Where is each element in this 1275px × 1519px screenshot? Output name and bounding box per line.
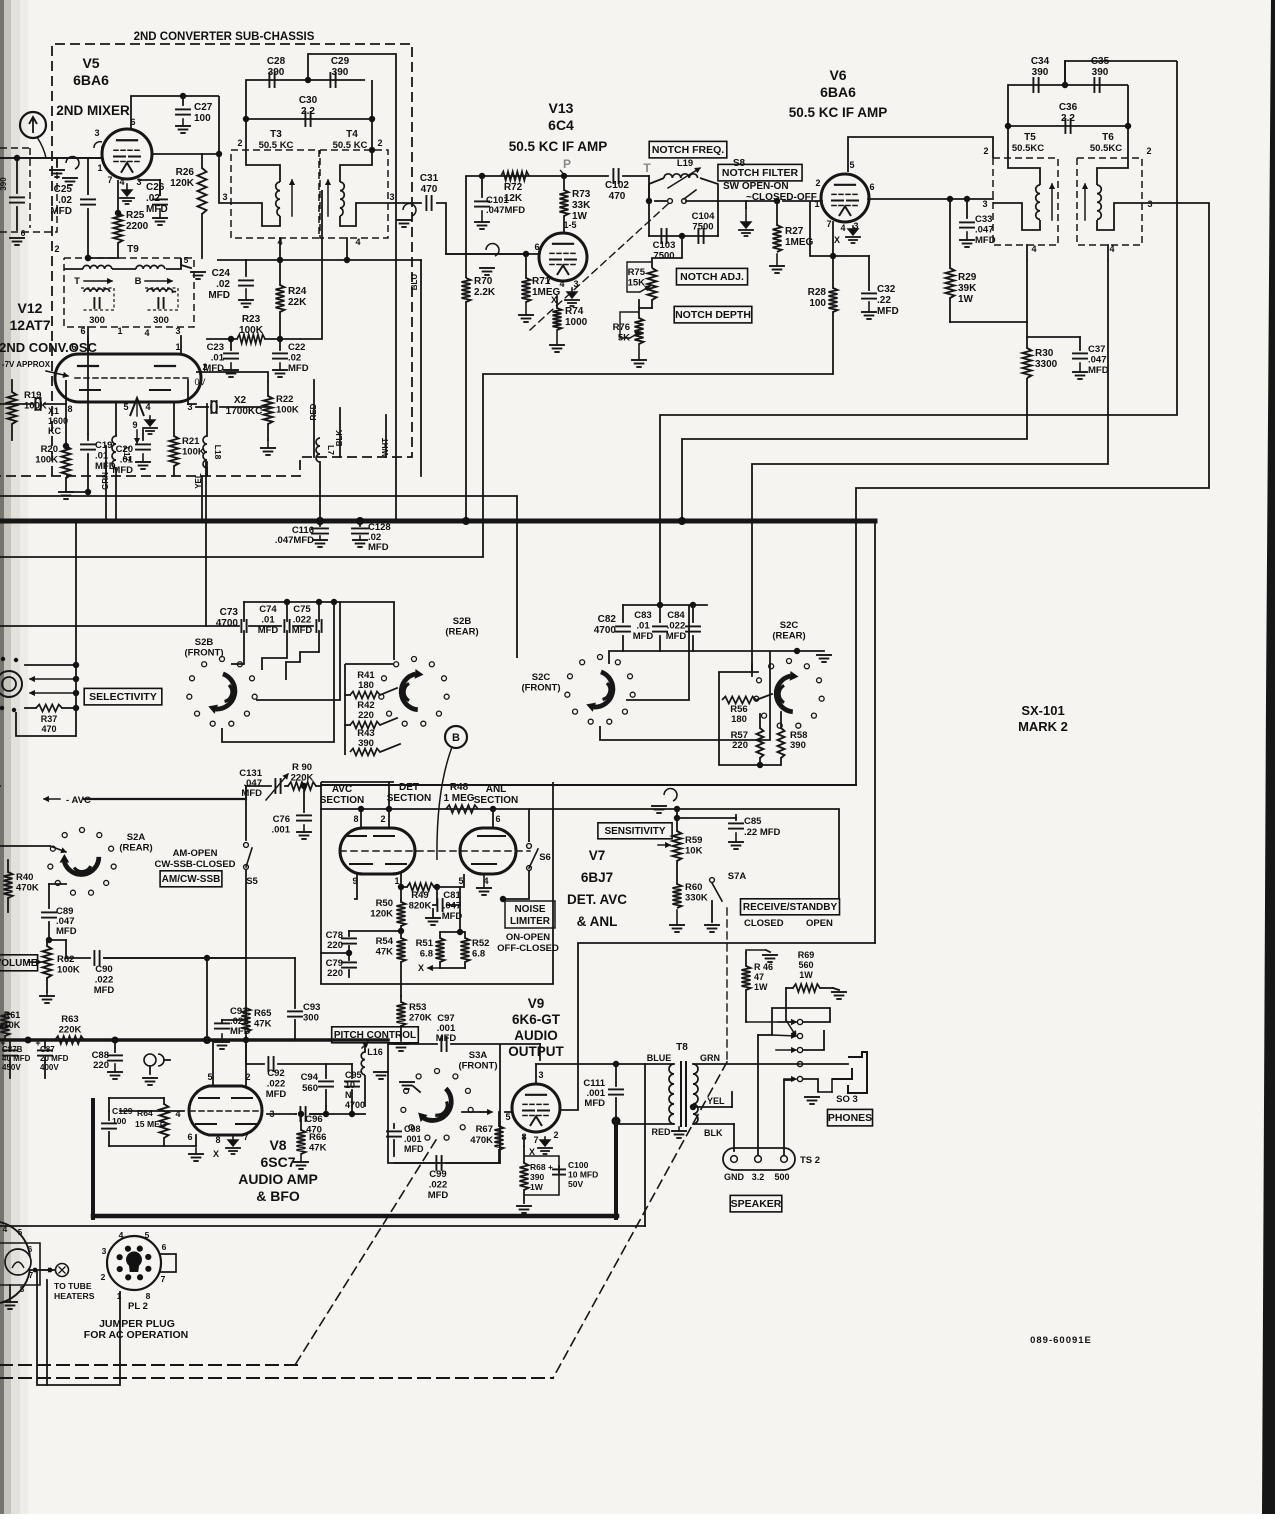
resistor R28 bbox=[829, 288, 838, 312]
capacitor C104 bbox=[697, 229, 699, 243]
svg-text:470K: 470K bbox=[16, 883, 39, 894]
riser x206 bbox=[205, 462, 207, 626]
svg-text:1600: 1600 bbox=[48, 416, 68, 426]
junction sens bbox=[674, 806, 680, 812]
capacitor C89 bbox=[48, 884, 50, 908]
svg-text:6SC7: 6SC7 bbox=[260, 1154, 295, 1170]
S6 switch bbox=[527, 844, 532, 849]
svg-text:8: 8 bbox=[20, 1285, 25, 1294]
svg-text:39K: 39K bbox=[958, 283, 977, 294]
capacitor C29 bbox=[329, 73, 331, 87]
ground V5 center bbox=[126, 184, 128, 190]
resistor R21 bbox=[170, 436, 179, 466]
capacitor C111 bbox=[615, 1064, 617, 1086]
svg-text:R70: R70 bbox=[474, 276, 493, 287]
thin bottom rail bbox=[0, 1225, 645, 1227]
svg-text:10 MFD: 10 MFD bbox=[568, 1170, 598, 1180]
heater junction dots bbox=[33, 1268, 38, 1273]
svg-text:5: 5 bbox=[145, 1230, 150, 1240]
svg-text:47K: 47K bbox=[376, 947, 394, 958]
svg-text:220: 220 bbox=[327, 968, 343, 979]
capacitor C25 bbox=[81, 198, 95, 200]
resistor R67 bbox=[495, 1126, 504, 1150]
tube V12 envelope bbox=[55, 354, 201, 402]
svg-text:6.8: 6.8 bbox=[420, 949, 433, 960]
signal wire C31 down-right bbox=[436, 203, 524, 254]
cathode return wire bbox=[483, 374, 833, 557]
V7 anl cathode net bbox=[440, 887, 460, 932]
svg-text:AM/CW-SSB: AM/CW-SSB bbox=[162, 874, 221, 885]
svg-text:3: 3 bbox=[538, 1070, 543, 1080]
capacitor C85 bbox=[735, 815, 737, 820]
PL2 tab bbox=[159, 1254, 176, 1272]
resistor R24 bbox=[279, 260, 281, 285]
resistor R19 bbox=[8, 392, 17, 424]
jack wire net bbox=[772, 1008, 830, 1035]
svg-text:R21: R21 bbox=[182, 436, 200, 447]
svg-text:(REAR): (REAR) bbox=[772, 631, 805, 642]
T4 pin4 drop bbox=[346, 238, 348, 260]
svg-text:C26: C26 bbox=[146, 182, 165, 193]
svg-text:8: 8 bbox=[146, 1291, 151, 1301]
left entry wire bbox=[0, 157, 102, 159]
svg-text:1W: 1W bbox=[754, 982, 768, 992]
svg-text:R 90: R 90 bbox=[292, 762, 312, 773]
AVC bus heavy line bbox=[0, 519, 875, 524]
svg-text:5: 5 bbox=[123, 402, 128, 412]
jack arrows bbox=[772, 1035, 796, 1036]
svg-text:C92: C92 bbox=[267, 1068, 284, 1079]
svg-text:2: 2 bbox=[54, 244, 59, 254]
svg-text:R60: R60 bbox=[685, 882, 702, 893]
svg-text:4: 4 bbox=[355, 237, 360, 247]
noise limiter boxed bbox=[505, 901, 555, 928]
feedthru symbol bbox=[144, 1054, 156, 1066]
svg-text:7500: 7500 bbox=[692, 222, 713, 233]
svg-text:V12: V12 bbox=[18, 300, 43, 316]
svg-text:C99: C99 bbox=[429, 1169, 446, 1180]
resistor R60 bbox=[673, 884, 682, 908]
svg-text:GND: GND bbox=[724, 1172, 745, 1182]
svg-text:6C4: 6C4 bbox=[548, 117, 574, 133]
svg-text:1W: 1W bbox=[799, 970, 813, 980]
svg-text:PITCH CONTROL: PITCH CONTROL bbox=[334, 1030, 416, 1041]
svg-text:V8: V8 bbox=[269, 1137, 286, 1153]
capacitor C82 bbox=[622, 605, 624, 622]
pilot lamp bbox=[5, 1249, 31, 1275]
wire stair4 bbox=[856, 203, 1209, 785]
S2B front rotary bbox=[220, 657, 225, 662]
svg-text:390: 390 bbox=[530, 1172, 544, 1182]
T4 secondary path bbox=[340, 203, 412, 226]
svg-text:2.2K: 2.2K bbox=[474, 287, 496, 298]
V9 ground bbox=[544, 1137, 546, 1140]
V6 ground bbox=[852, 226, 854, 229]
svg-text:MFD: MFD bbox=[94, 985, 115, 996]
circled A test point bbox=[20, 112, 46, 138]
notch filter boxed label bbox=[718, 164, 802, 181]
svg-text:220K: 220K bbox=[59, 1025, 82, 1036]
svg-text:MFD: MFD bbox=[258, 625, 279, 636]
V12 grid dashes bbox=[75, 377, 190, 379]
wire V7 bottom rail bbox=[321, 983, 553, 985]
sens top gnd loop bbox=[664, 789, 677, 801]
svg-text:R53: R53 bbox=[409, 1002, 426, 1013]
svg-text:R59: R59 bbox=[685, 835, 702, 846]
svg-text:3.2: 3.2 bbox=[752, 1172, 765, 1182]
V7 pin5 wire bbox=[460, 874, 464, 887]
resistor R20 bbox=[62, 446, 71, 478]
svg-text:10K: 10K bbox=[685, 846, 703, 857]
AVC label arrow bbox=[44, 798, 60, 800]
svg-text:R69: R69 bbox=[798, 950, 815, 960]
svg-text:7: 7 bbox=[826, 219, 831, 229]
T6 secondary bbox=[1097, 203, 1142, 230]
svg-text:R26: R26 bbox=[176, 167, 195, 178]
svg-text:10K: 10K bbox=[4, 1020, 21, 1030]
svg-text:.047MFD: .047MFD bbox=[486, 205, 525, 216]
pilot lamp box bbox=[0, 1243, 40, 1285]
svg-text:R71: R71 bbox=[532, 276, 551, 287]
svg-text:C76: C76 bbox=[273, 814, 290, 825]
svg-text:AUDIO AMP: AUDIO AMP bbox=[238, 1171, 318, 1187]
svg-text:390: 390 bbox=[1092, 67, 1109, 78]
S1 stub wire 1 bbox=[25, 664, 76, 666]
svg-text:2: 2 bbox=[101, 1272, 106, 1282]
svg-text:C20: C20 bbox=[116, 444, 133, 455]
svg-text:50V: 50V bbox=[568, 1179, 583, 1189]
junction V6 out bbox=[964, 196, 970, 202]
svg-text:.047: .047 bbox=[443, 901, 462, 912]
S2C rear rotary bbox=[787, 659, 792, 664]
junction C25/R25 bbox=[85, 255, 91, 261]
capacitor C128 bbox=[359, 521, 361, 526]
svg-text:820K: 820K bbox=[409, 901, 432, 912]
svg-text:.02: .02 bbox=[146, 193, 160, 204]
heater loop wire bbox=[37, 1271, 120, 1385]
S2A rotary bbox=[80, 828, 85, 833]
V7 pin9 wire bbox=[354, 874, 357, 899]
svg-text:MFD: MFD bbox=[584, 1098, 605, 1109]
pot R59 bbox=[673, 831, 682, 861]
svg-text:180: 180 bbox=[358, 680, 374, 691]
svg-text:390: 390 bbox=[358, 738, 374, 749]
trimmer C131 bbox=[274, 779, 276, 793]
svg-text:MFD: MFD bbox=[877, 306, 899, 317]
wire C34 junction riser bbox=[1064, 61, 1066, 85]
V12 grid wire left bbox=[65, 380, 67, 446]
capacitor C33 bbox=[966, 199, 968, 218]
svg-text:1000: 1000 bbox=[565, 317, 588, 328]
svg-text:R20: R20 bbox=[41, 444, 58, 455]
svg-text:10: 10 bbox=[345, 1080, 355, 1090]
S2B lower wire bbox=[222, 602, 334, 742]
wire R90 right bbox=[316, 785, 321, 787]
svg-text:5: 5 bbox=[18, 1228, 23, 1237]
resistor R51 bbox=[436, 938, 445, 962]
390 trimmer cap bbox=[10, 196, 24, 198]
svg-text:6BA6: 6BA6 bbox=[820, 84, 856, 100]
svg-text:.001: .001 bbox=[272, 825, 291, 836]
svg-text:YEL: YEL bbox=[707, 1096, 725, 1106]
svg-text:40 MFD: 40 MFD bbox=[2, 1054, 31, 1063]
T9 top coil 1 bbox=[83, 265, 112, 269]
PL2 pins bbox=[137, 1246, 143, 1252]
svg-text:4: 4 bbox=[119, 177, 124, 187]
S1 ladder vertical bbox=[75, 522, 77, 736]
S3A rotary bbox=[435, 1069, 440, 1074]
svg-text:.02: .02 bbox=[216, 279, 230, 290]
svg-text:OPEN: OPEN bbox=[806, 918, 833, 929]
circled X heaters bbox=[56, 1264, 69, 1277]
resistor R42 bbox=[350, 722, 380, 729]
svg-text:.22 MFD: .22 MFD bbox=[744, 827, 781, 838]
wire V8 pin2 up bbox=[245, 1040, 247, 1086]
vertical GRN to bus bbox=[115, 476, 117, 521]
svg-text:C90: C90 bbox=[95, 964, 112, 975]
sensitivity boxed bbox=[598, 823, 672, 839]
svg-text:C23: C23 bbox=[207, 342, 224, 353]
wire V12 pin1 up bbox=[180, 336, 182, 354]
svg-text:8: 8 bbox=[353, 814, 358, 824]
wire blue rail bbox=[536, 1063, 674, 1065]
capacitor C20 bbox=[142, 430, 144, 440]
svg-text:SO 3: SO 3 bbox=[836, 1094, 858, 1105]
svg-text:220: 220 bbox=[732, 740, 748, 751]
capacitor C78 bbox=[348, 931, 350, 936]
svg-text:(REAR): (REAR) bbox=[445, 627, 478, 638]
svg-text:15K: 15K bbox=[628, 278, 646, 289]
svg-text:X1: X1 bbox=[48, 406, 59, 416]
speaker boxed bbox=[730, 1195, 782, 1212]
S2A stub bbox=[0, 845, 50, 847]
svg-text:20 MFD: 20 MFD bbox=[40, 1054, 69, 1063]
transformer T8 primary bbox=[669, 1064, 674, 1124]
wire S6 down bbox=[503, 871, 529, 899]
svg-text:RECEIVE/STANDBY: RECEIVE/STANDBY bbox=[743, 902, 838, 913]
resistor R65 bbox=[242, 1008, 251, 1032]
coil L16 bbox=[361, 1052, 365, 1075]
svg-text:300: 300 bbox=[303, 1013, 319, 1024]
volume boxed bbox=[0, 955, 38, 971]
capacitor C24 bbox=[245, 260, 247, 276]
svg-text:7: 7 bbox=[107, 175, 112, 185]
svg-text:470: 470 bbox=[421, 184, 438, 195]
capacitor C99 bbox=[394, 1162, 439, 1164]
svg-text:R28: R28 bbox=[808, 287, 827, 298]
svg-text:6: 6 bbox=[162, 1242, 167, 1252]
svg-text:4: 4 bbox=[145, 402, 150, 412]
resistor R41 bbox=[350, 692, 380, 699]
svg-text:SELECTIVITY: SELECTIVITY bbox=[89, 691, 157, 703]
svg-text:6: 6 bbox=[187, 1132, 192, 1142]
T3 coil bbox=[276, 182, 280, 216]
svg-text:089-60091E: 089-60091E bbox=[1030, 1335, 1092, 1346]
wire det riser bbox=[388, 782, 390, 809]
svg-text:V6: V6 bbox=[829, 67, 846, 83]
bus junction C128 bbox=[356, 517, 364, 525]
wire C102 right bbox=[623, 175, 649, 177]
svg-text:C22: C22 bbox=[288, 342, 305, 353]
wire R42 bbox=[345, 724, 350, 726]
svg-text:.047MFD: .047MFD bbox=[275, 535, 314, 546]
svg-text:DET. AVC: DET. AVC bbox=[567, 892, 627, 907]
svg-text:R76: R76 bbox=[613, 322, 630, 333]
phones boxed bbox=[827, 1109, 872, 1126]
capacitor C129 bbox=[108, 1111, 110, 1120]
svg-text:NOTCH ADJ.: NOTCH ADJ. bbox=[680, 271, 744, 283]
svg-text:RED: RED bbox=[651, 1127, 671, 1137]
svg-text:5: 5 bbox=[849, 160, 854, 170]
tube V6 bbox=[821, 174, 869, 222]
svg-text:390: 390 bbox=[268, 67, 285, 78]
svg-text:& ANL: & ANL bbox=[577, 914, 618, 929]
notch coil L19 branch bbox=[649, 178, 664, 201]
svg-text:C74: C74 bbox=[259, 604, 277, 615]
svg-text:V9: V9 bbox=[528, 996, 545, 1011]
BLU lead wire bbox=[420, 260, 422, 476]
resistor R25 bbox=[114, 213, 123, 243]
heater arrow bbox=[40, 1269, 52, 1271]
coupling loop T5T6 bbox=[1008, 85, 1128, 158]
T4 coil arrow bbox=[327, 180, 329, 216]
junction notch left bbox=[646, 198, 652, 204]
svg-text:6: 6 bbox=[534, 242, 539, 252]
T6 primary bbox=[1097, 158, 1128, 185]
resistor R43 bbox=[350, 749, 380, 756]
junction pin6 node bbox=[216, 151, 222, 157]
V13 ground bbox=[571, 288, 573, 292]
wire cathode bbox=[117, 180, 119, 213]
svg-text:300: 300 bbox=[89, 315, 105, 326]
wire V12 pin6 up bbox=[87, 336, 89, 354]
transformer T3 box bbox=[231, 150, 319, 238]
svg-text:S7A: S7A bbox=[728, 871, 747, 882]
wire R46 down bbox=[745, 1021, 747, 1022]
svg-text:6K6-GT: 6K6-GT bbox=[512, 1012, 561, 1027]
svg-text:270K: 270K bbox=[409, 1013, 432, 1024]
svg-text:.001: .001 bbox=[404, 1134, 422, 1144]
svg-text:C35: C35 bbox=[1091, 56, 1110, 67]
R22 ground bbox=[267, 440, 269, 448]
capacitor C94 bbox=[325, 1064, 327, 1078]
wire ladder top bbox=[345, 663, 394, 665]
svg-text:1-5: 1-5 bbox=[563, 220, 576, 230]
capacitor C34 bbox=[1032, 78, 1034, 92]
wire R41 bbox=[345, 694, 350, 696]
svg-text:MFD: MFD bbox=[112, 465, 133, 476]
wire grid left drop bbox=[88, 158, 102, 195]
junction C78 mid bbox=[346, 950, 352, 956]
coil L18 bbox=[203, 436, 207, 468]
svg-text:C94: C94 bbox=[301, 1072, 319, 1083]
svg-text:ON-OPEN: ON-OPEN bbox=[506, 932, 550, 943]
AVC wire bbox=[84, 798, 246, 800]
wire pin8 drop bbox=[360, 809, 362, 828]
wire into notch bbox=[648, 176, 650, 201]
junction left entry bbox=[14, 155, 20, 161]
svg-text:MFD: MFD bbox=[292, 625, 313, 636]
R46 gnd bbox=[763, 954, 777, 956]
svg-text:6: 6 bbox=[495, 814, 500, 824]
junction blue bbox=[613, 1061, 619, 1067]
svg-text:C103: C103 bbox=[653, 240, 676, 251]
capacitor C91 bbox=[245, 958, 247, 1020]
B plus riser from top rail bbox=[308, 54, 396, 521]
capacitor C27 bbox=[182, 96, 184, 105]
svg-text:S6: S6 bbox=[539, 852, 551, 863]
R62 ground bbox=[46, 992, 48, 996]
svg-text:SECTION: SECTION bbox=[320, 795, 364, 806]
svg-text:50.5 KC IF AMP: 50.5 KC IF AMP bbox=[789, 105, 888, 120]
terminal strip TS2 bbox=[723, 1148, 795, 1170]
svg-text:1: 1 bbox=[175, 342, 180, 352]
svg-text:100K: 100K bbox=[35, 455, 58, 466]
svg-text:L7: L7 bbox=[326, 445, 336, 455]
junction grid RC bbox=[63, 443, 69, 449]
wire R23 to red riser bbox=[300, 190, 322, 339]
wire T3/T4 bottom rail bbox=[246, 259, 421, 261]
resistor R26 bbox=[201, 154, 203, 168]
wire V5 grid input bbox=[0, 157, 102, 159]
svg-text:C31: C31 bbox=[420, 173, 439, 184]
audio box heavy right bbox=[614, 1121, 618, 1218]
svg-text:C36: C36 bbox=[1059, 102, 1078, 113]
resistor R57 bbox=[757, 728, 764, 758]
svg-text:MFD: MFD bbox=[633, 631, 654, 642]
svg-text:220: 220 bbox=[327, 940, 343, 951]
svg-text:R19: R19 bbox=[24, 390, 41, 401]
svg-text:5: 5 bbox=[458, 876, 463, 886]
junction anl bbox=[457, 929, 463, 935]
T9 can2 box bbox=[145, 288, 178, 310]
resistor R73 bbox=[563, 176, 565, 190]
V8 grid dashes bbox=[190, 1110, 262, 1112]
T3 primary path bbox=[246, 150, 280, 182]
svg-text:MFD: MFD bbox=[203, 363, 224, 374]
svg-text:C29: C29 bbox=[331, 56, 350, 67]
R46 top jog bbox=[746, 950, 766, 955]
V6 cathode loop bbox=[810, 201, 846, 256]
svg-text:S3A: S3A bbox=[469, 1050, 488, 1061]
svg-text:(REAR): (REAR) bbox=[119, 843, 152, 854]
svg-text:.022: .022 bbox=[95, 975, 114, 986]
wire C37 branch bbox=[1027, 336, 1080, 338]
heater wire bottom bbox=[31, 1269, 55, 1271]
svg-text:220: 220 bbox=[358, 710, 374, 721]
svg-text:6: 6 bbox=[80, 326, 85, 336]
svg-text:C33: C33 bbox=[975, 214, 992, 225]
svg-text:R24: R24 bbox=[288, 286, 307, 297]
svg-text:DET: DET bbox=[399, 782, 419, 793]
V6 plate wire bbox=[848, 137, 993, 172]
S1 stub wire 2 bbox=[30, 678, 76, 680]
svg-text:T4: T4 bbox=[346, 129, 358, 140]
capacitor C23 bbox=[230, 339, 232, 350]
T8 yel tap bbox=[690, 1104, 696, 1110]
svg-text:R65: R65 bbox=[254, 1008, 272, 1019]
svg-text:R29: R29 bbox=[958, 272, 977, 283]
notch adj boxed bbox=[676, 268, 747, 285]
svg-text:L18: L18 bbox=[213, 445, 223, 460]
svg-text:R67: R67 bbox=[476, 1124, 493, 1135]
V7 cathodes bbox=[350, 863, 372, 865]
wire R56 out bbox=[756, 694, 772, 700]
vertical YEL to bus bbox=[206, 462, 208, 476]
wire V5 plate to top rail bbox=[131, 96, 219, 130]
wire bfo row bbox=[310, 1113, 352, 1115]
wire T9-6 down bbox=[87, 327, 89, 434]
